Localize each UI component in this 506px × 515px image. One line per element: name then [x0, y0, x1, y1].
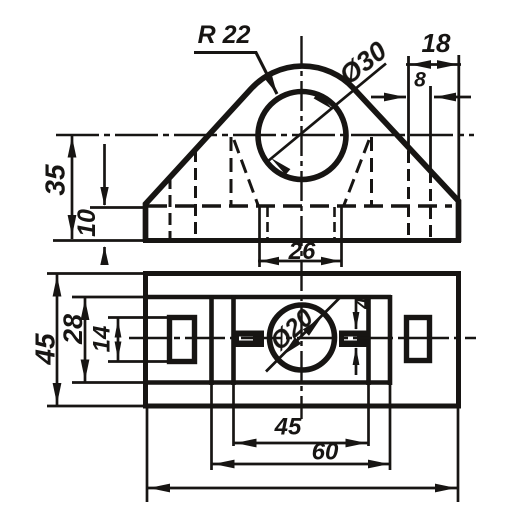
- extension line: dim 26 left: [258, 206, 261, 267]
- dimension 60: dimension line: [212, 463, 392, 466]
- dimension R22: label: [198, 21, 251, 49]
- dimension 26: left arrowhead: [260, 257, 279, 265]
- dimension Phi30: lower arrowhead: [271, 158, 290, 175]
- extension line: right edge up to dim 18: [457, 55, 460, 201]
- extension line: dim 45 bottom right: [367, 385, 370, 446]
- dimension Phi30: diameter line: [268, 64, 387, 162]
- dimension 45 (step width): dimension line: [234, 442, 369, 445]
- centerline: front vertical axis: [300, 36, 302, 419]
- dimension R22: leader line: [194, 53, 277, 95]
- dimension 60: left arrowhead: [214, 460, 235, 469]
- extension line: boss bottom extended left: [72, 381, 146, 384]
- extension line: overall width left: [146, 406, 149, 502]
- dimension 8: left arrowhead: [384, 93, 405, 102]
- dimension 8: dimension line with outside arrows: [371, 96, 471, 99]
- dimension 26: dimension line: [258, 260, 342, 263]
- dimension Phi20: upper arrowhead: [303, 318, 321, 336]
- hole Phi20 (plan view circle): [270, 305, 335, 370]
- svg-text:28: 28: [58, 314, 88, 345]
- extension line: shelf extended left for dim 10: [90, 206, 148, 209]
- dimension 45 (step width): left arrowhead: [236, 439, 257, 448]
- svg-text:8: 8: [414, 69, 426, 92]
- hidden edge: hub left silhouette (dashed): [230, 137, 233, 205]
- dimension 60: right arrowhead: [368, 460, 389, 469]
- centerline: front horizontal axis (also ext for dim 35): [56, 134, 474, 136]
- plan view: left keyway ear: [233, 331, 264, 348]
- dimension 18: dimension line: [406, 63, 461, 66]
- dimension overall width: dimension line: [147, 487, 458, 490]
- extension line: dim 26 right: [340, 206, 343, 267]
- svg-text:35: 35: [40, 164, 71, 196]
- extension line: dim 60 left: [210, 385, 213, 470]
- hidden edge: right slot left side, ext line for dim 8 above: [407, 56, 410, 238]
- dimension Phi30: upper arrowhead: [314, 93, 333, 110]
- hidden edge: right slot right side, ext line for dim 8 above: [429, 86, 432, 238]
- svg-text:14: 14: [89, 326, 116, 353]
- extension line: slot bottom extended left: [108, 360, 170, 363]
- dimension 45 (plate depth): bottom arrowhead: [53, 383, 62, 404]
- hidden edge: hole right wall in base (dashed): [333, 207, 336, 238]
- dimension 10: upper arrow with tail: [100, 144, 108, 206]
- dimension 45 (plate depth): dimension line: [56, 274, 59, 407]
- svg-text:10: 10: [73, 209, 101, 237]
- plan view: right keyway ear: [339, 331, 367, 348]
- dimension 45 (plate depth): top arrowhead: [53, 276, 62, 297]
- dimension 28: dimension line: [84, 297, 87, 383]
- dimension 28: label: [58, 314, 88, 345]
- plan view: boss right edge (60): [388, 295, 393, 385]
- dimension 28: bottom arrowhead: [81, 360, 90, 381]
- plan view: right slot rectangle: [407, 318, 430, 361]
- dimension 35: label: [40, 164, 71, 196]
- dimension 14: top arrowhead: [115, 320, 122, 338]
- extension line: overall width right: [457, 406, 460, 502]
- front view: body outline (base, slants, R22 arc): [146, 66, 459, 242]
- dimension 28: top arrowhead: [81, 299, 90, 320]
- dimension 18: left arrowhead: [410, 60, 431, 69]
- svg-text:18: 18: [422, 28, 451, 58]
- dimension 60: label: [312, 439, 339, 466]
- plan view: step left edge (45): [231, 295, 236, 385]
- dimension 35: bottom arrowhead: [68, 215, 77, 236]
- dimension overall width: right arrowhead: [435, 484, 456, 493]
- dimension 8: label: [414, 69, 426, 92]
- extension line: base bottom extended left for dim 35: [53, 239, 145, 242]
- svg-text:R 22: R 22: [198, 21, 251, 49]
- dimension 26: label: [288, 238, 316, 265]
- dimension 10: lower arrow with tail: [100, 246, 108, 265]
- dimension 14: bottom arrowhead: [115, 342, 122, 360]
- dimension 35: dimension line: [71, 135, 74, 240]
- plan view: left slot rectangle: [170, 318, 195, 362]
- extension line: plan top edge extended left: [47, 272, 145, 275]
- dimension 35: top arrowhead: [68, 137, 77, 158]
- plan view: boss bottom edge: [146, 380, 391, 385]
- dimension 14: dimension line: [117, 318, 120, 362]
- front view: base bottom edge: [143, 238, 461, 243]
- plan view: step right edge (45): [366, 295, 371, 385]
- svg-text:45: 45: [274, 414, 302, 441]
- dimension 4: lower arrow with tail: [353, 347, 360, 375]
- dimension overall width: left arrowhead: [149, 484, 170, 493]
- extension line: dim 45 bottom left: [232, 385, 235, 446]
- svg-text:60: 60: [312, 439, 339, 466]
- dimension 10: label: [73, 209, 101, 237]
- plan view: outer plate rectangle: [146, 274, 459, 407]
- hidden edge: hub right silhouette (dashed): [370, 137, 373, 205]
- dimension 45 (step width): label: [274, 414, 302, 441]
- dimension R22: arrowhead: [264, 74, 277, 94]
- plan view: boss left edge (60): [209, 295, 214, 385]
- extension line: dim 60 right: [389, 385, 392, 470]
- hidden edge: left slot right side (dashed): [194, 150, 197, 238]
- hole Phi30 (front view circle): [258, 92, 346, 180]
- dimension 45 (step width): right arrowhead: [346, 439, 367, 448]
- extension line: boss top extended left: [72, 296, 146, 299]
- extension line: plan bottom edge extended left: [47, 405, 145, 408]
- dimension Phi20: label: [265, 304, 319, 356]
- svg-text:26: 26: [288, 238, 316, 265]
- hidden edge: right taper (dashed): [344, 140, 369, 205]
- centerline: plan horizontal axis: [129, 337, 476, 339]
- dimension Phi20: diameter line: [266, 297, 341, 372]
- front view: hidden shelf edge (top of base, dashed): [148, 204, 452, 207]
- extension line: slot top extended left: [108, 316, 170, 319]
- hidden edge: left taper (dashed): [234, 140, 258, 205]
- dimension 26: right arrowhead: [321, 257, 340, 265]
- hidden edge: left slot left side (dashed): [169, 177, 172, 238]
- dimension Phi30: label: [334, 35, 393, 90]
- plan view: boss top edge: [146, 295, 391, 300]
- dimension 4: label: [352, 297, 375, 310]
- dimension Phi20: lower arrowhead: [283, 337, 301, 355]
- hidden edge: hole left wall in base (dashed): [266, 207, 269, 238]
- dimension 14: label: [89, 326, 116, 353]
- dimension 45 (plate depth): label: [30, 333, 61, 366]
- dimension 4: upper arrow with tail: [353, 298, 360, 330]
- dimension 18: right arrowhead: [437, 60, 458, 69]
- dimension 18: label: [422, 28, 451, 58]
- svg-text:45: 45: [30, 333, 61, 366]
- svg-text:4: 4: [352, 297, 375, 310]
- dimension 8: right arrowhead: [435, 93, 456, 102]
